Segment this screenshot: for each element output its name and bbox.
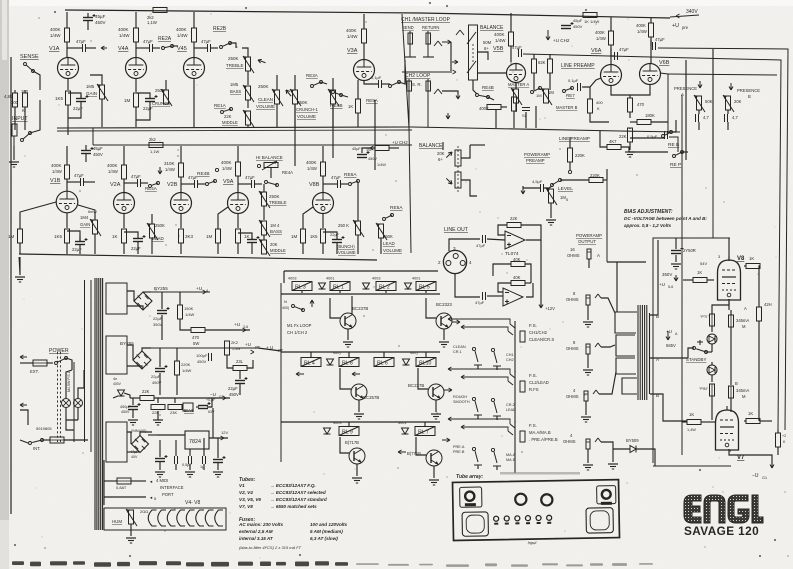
wire	[136, 102, 150, 120]
potentiometer 250K LEAD VOL	[379, 224, 384, 238]
resistor 180K	[637, 120, 651, 125]
capacitor 450uF	[128, 406, 138, 408]
fs jack fs2	[514, 371, 516, 423]
wire	[194, 47, 207, 49]
wire	[281, 421, 440, 423]
capacitor 100uF	[208, 353, 210, 361]
ground	[185, 471, 195, 473]
wire	[217, 463, 219, 470]
wire	[758, 321, 760, 421]
wire	[66, 243, 68, 254]
resistor line preamp	[548, 59, 553, 73]
wire	[130, 524, 132, 536]
output transformer primary w3	[616, 358, 636, 374]
switch fs1 a	[475, 351, 478, 362]
capacitor 47uF V5A	[337, 180, 339, 188]
bridge rectifier BY255 b	[133, 351, 151, 369]
ground	[625, 151, 635, 153]
resistor 400K plate V1A	[65, 28, 70, 42]
wire	[650, 37, 652, 63]
capacitor 47uF fb	[652, 42, 654, 50]
capacitor 47uF V6A	[614, 52, 616, 60]
poweramp inner vert	[712, 160, 714, 238]
potentiometer LEVEL 1M5	[549, 189, 554, 203]
arrow balance2b	[446, 178, 452, 184]
ground	[583, 464, 593, 466]
wire	[87, 21, 89, 30]
heater winding arc 6	[196, 510, 204, 526]
wire	[711, 326, 713, 332]
capacitor 47uF V2B	[194, 180, 196, 188]
potentiometer 250K TREBLE	[246, 57, 251, 71]
capacitor 0.1uF line	[577, 83, 579, 91]
wire	[157, 398, 159, 403]
wire	[759, 266, 760, 290]
resistor 470 5W	[191, 328, 205, 333]
wire	[348, 422, 350, 426]
row divider line	[57, 127, 680, 132]
potentiometer PRESENCE B 20K	[726, 96, 731, 110]
wire	[374, 100, 376, 170]
wire	[80, 95, 82, 98]
wire	[501, 106, 507, 108]
output transformer primary w1	[615, 312, 637, 333]
arrow loop2	[457, 94, 459, 99]
wire	[20, 440, 28, 443]
wire	[123, 243, 125, 254]
fuse int	[50, 437, 64, 443]
wire	[363, 14, 365, 18]
wire	[303, 207, 313, 229]
switch RE3A	[311, 85, 314, 88]
wire	[172, 45, 178, 47]
tube array panel	[453, 480, 620, 547]
arrow loop1	[442, 41, 451, 43]
capacitor 4.7 B	[724, 114, 726, 122]
fs sleeve fs3	[520, 431, 525, 442]
resistor 1K5 V1B	[65, 229, 70, 243]
mains dashes	[57, 352, 59, 442]
switch RE7	[531, 91, 534, 94]
wire	[193, 12, 195, 28]
wire	[193, 42, 195, 58]
wire	[90, 75, 102, 85]
wire	[569, 162, 571, 170]
wire	[131, 480, 146, 482]
wire	[132, 410, 134, 418]
potentiometer 250KB	[356, 221, 361, 235]
wire	[103, 460, 105, 505]
wire	[418, 368, 428, 389]
resistor 400K V5B	[509, 32, 514, 46]
wire right bus upper	[658, 48, 788, 430]
wire	[84, 181, 95, 183]
arrow loop2b	[447, 113, 449, 119]
wire	[585, 401, 587, 415]
wire	[151, 214, 153, 224]
switch RE P	[673, 155, 676, 158]
wire	[193, 78, 195, 127]
wire	[712, 299, 729, 314]
wire	[629, 151, 668, 153]
fs jack fs3	[514, 421, 516, 473]
switch RE6A	[349, 183, 352, 186]
ground	[583, 369, 593, 371]
switch RE5A	[383, 218, 386, 221]
arrow +12V	[540, 300, 542, 308]
wire	[587, 354, 589, 368]
wire	[357, 235, 359, 254]
switch input	[21, 139, 24, 142]
wire	[124, 182, 137, 184]
output transformer primary w2	[616, 335, 635, 356]
wire	[157, 411, 159, 420]
resistor 220K out	[589, 178, 603, 183]
wire	[211, 47, 218, 49]
wire	[159, 348, 161, 367]
resistor 1K V3B	[236, 229, 241, 243]
power transformer winding 2	[106, 336, 127, 374]
wire	[198, 183, 205, 185]
capacitor bias out	[198, 405, 208, 407]
poweramp left border	[681, 95, 683, 455]
wire	[496, 416, 498, 420]
wire	[510, 46, 512, 62]
wire	[461, 145, 470, 158]
wire	[356, 464, 358, 476]
wire	[127, 432, 131, 444]
wire	[238, 183, 251, 185]
wire	[332, 104, 334, 158]
wire	[66, 146, 68, 165]
wire	[362, 148, 375, 153]
wire	[127, 306, 143, 310]
wire	[535, 106, 537, 128]
wire	[323, 183, 337, 185]
wire	[616, 262, 618, 312]
wire	[175, 440, 177, 456]
relay RL 2	[376, 282, 396, 291]
fuse 345mA M2	[729, 386, 734, 398]
transistor BC237B a	[340, 313, 356, 329]
wire	[135, 107, 137, 127]
wire	[544, 186, 552, 188]
wire	[67, 181, 80, 183]
relay RL 6	[374, 358, 394, 367]
transistor BC171B b	[426, 450, 442, 466]
jack 8 ohms b	[586, 344, 590, 354]
wire	[104, 496, 146, 498]
fuse PTI	[710, 314, 715, 326]
arrow mains L	[20, 356, 27, 358]
wire	[238, 233, 252, 239]
capacitor 0.1uF V3A	[378, 80, 380, 88]
output transformer secondary	[649, 313, 651, 394]
ground	[9, 161, 19, 163]
arrow U36	[245, 329, 247, 331]
ground	[343, 341, 353, 343]
wire	[727, 122, 729, 130]
wire	[357, 113, 359, 127]
resistor 4k7	[607, 145, 621, 150]
arrow clean	[286, 90, 291, 96]
wire	[688, 348, 694, 358]
contact hibal	[257, 164, 260, 167]
wire	[587, 449, 589, 463]
wire	[237, 213, 239, 228]
arrow treble	[258, 60, 266, 63]
resistor 400K V1B	[65, 165, 70, 179]
wire	[701, 421, 716, 423]
wire	[189, 464, 191, 470]
ground	[581, 416, 591, 418]
wire	[66, 213, 68, 228]
ground	[439, 341, 449, 343]
wire	[758, 290, 760, 307]
wire	[242, 48, 248, 57]
wire	[263, 184, 265, 192]
contact RE4B up	[215, 168, 218, 171]
triode V1A	[58, 58, 79, 79]
wire	[79, 236, 81, 241]
wire	[113, 396, 118, 398]
wire	[730, 398, 732, 412]
wire	[66, 358, 72, 370]
switch RE1A	[221, 111, 224, 114]
zener row1 b	[363, 283, 370, 289]
fs bars fs3	[474, 464, 482, 466]
wire	[610, 45, 612, 64]
wire	[42, 439, 50, 441]
jack tip mark 2	[595, 343, 598, 347]
wire	[668, 357, 688, 359]
potentiometer 1M4 BASS 2	[262, 221, 267, 235]
wire	[683, 279, 693, 281]
wire	[443, 329, 445, 340]
wire	[239, 370, 241, 379]
wire	[137, 242, 139, 254]
wire	[67, 47, 82, 49]
triode V1B	[56, 191, 78, 213]
wire	[358, 400, 360, 412]
wire	[230, 43, 236, 48]
wire	[14, 107, 16, 130]
arrow balance1b	[452, 61, 458, 63]
wire	[124, 393, 130, 398]
wire	[217, 243, 219, 254]
wire	[159, 462, 161, 470]
wire	[399, 60, 405, 84]
resistor 1K V7	[687, 420, 701, 425]
resistor 400K grid	[588, 99, 593, 113]
wire	[711, 362, 713, 365]
wire	[629, 112, 631, 118]
wire	[135, 12, 137, 28]
potentiometer 22K MIDDLE	[246, 111, 251, 125]
arrow out V1A	[101, 47, 107, 49]
wire	[157, 434, 185, 436]
arrow row3 r	[442, 439, 450, 441]
ground	[431, 413, 441, 415]
wire	[203, 438, 205, 456]
jack hook loop1	[434, 41, 438, 46]
poweramp divider vert	[606, 169, 608, 262]
capacitor 45uF CH2b	[357, 154, 367, 156]
arrow row2 mid	[352, 373, 360, 375]
wire	[127, 291, 134, 301]
balance hook a	[456, 30, 460, 35]
potentiometer MASTER B	[544, 89, 549, 103]
wire	[601, 298, 615, 313]
wire	[590, 78, 601, 87]
power transformer winding 1	[106, 283, 127, 314]
wire	[255, 183, 262, 185]
wire	[495, 110, 497, 128]
power transformer primary wires	[73, 362, 75, 442]
wire	[20, 410, 28, 425]
wire	[237, 146, 239, 162]
arrow mains N	[20, 404, 27, 406]
return jack	[426, 33, 431, 44]
wire	[630, 84, 650, 95]
wire	[67, 105, 69, 135]
wire	[477, 365, 479, 369]
scan smudge panel top	[500, 472, 580, 475]
wire	[521, 225, 541, 240]
wire	[247, 125, 249, 127]
capacitor 4.7 A	[695, 114, 697, 122]
bias box bottom	[653, 465, 731, 467]
arrow Upre supply	[253, 351, 255, 353]
wire	[477, 72, 506, 74]
wire	[650, 357, 668, 359]
jack tip mark 1	[595, 294, 598, 298]
switch RE4A	[149, 185, 152, 188]
arrow bc237b	[444, 389, 452, 391]
wire	[77, 408, 79, 420]
wire	[179, 319, 181, 326]
wire	[698, 110, 700, 114]
wire	[14, 90, 16, 93]
wire	[777, 447, 779, 455]
wire	[281, 351, 440, 353]
wire	[142, 348, 151, 351]
fs jack fs1	[514, 321, 516, 373]
resistor 62K	[532, 59, 537, 73]
send jack	[408, 33, 413, 44]
resistor 40K b	[511, 281, 525, 286]
wire	[94, 234, 96, 254]
wire	[549, 73, 551, 90]
potentiometer MASTER A	[514, 89, 519, 103]
wire	[47, 362, 53, 364]
fuse 345mA M1	[729, 315, 734, 327]
potentiometer hibal	[264, 163, 278, 168]
wire	[237, 176, 239, 192]
wire	[730, 327, 732, 385]
switch RE9A	[389, 85, 392, 88]
heater winding arc 4	[177, 510, 185, 526]
wire	[744, 420, 746, 422]
wire	[276, 75, 278, 90]
wire	[161, 292, 163, 309]
relay RL10	[416, 358, 436, 367]
ground	[155, 471, 165, 473]
power tube V7	[716, 410, 739, 450]
resistor 1K5 V5A	[321, 229, 326, 243]
wire	[270, 167, 272, 178]
switch RE2A	[162, 47, 165, 50]
wire	[426, 298, 436, 318]
switch fs3 a	[475, 451, 478, 462]
potentiometer 250K CLEAN VOL	[275, 90, 280, 104]
switch RE2B	[220, 46, 223, 49]
potentiometer PRESENCE A 50K	[697, 96, 702, 110]
triode V4B	[184, 58, 205, 79]
resistor 1K V3A	[356, 99, 361, 113]
capacitor 22uF 350V	[157, 310, 167, 312]
transistor BC171B a	[349, 448, 365, 464]
wire	[477, 465, 479, 469]
triode V3B	[228, 193, 249, 214]
wire	[730, 310, 732, 315]
wire	[135, 78, 137, 92]
wire	[711, 344, 713, 352]
contact fs1 b	[491, 348, 494, 351]
capacitor 47uF V3B	[251, 180, 253, 188]
switch fs3 b	[494, 452, 497, 463]
resistor 1K V2A	[122, 229, 127, 243]
wire	[78, 205, 95, 220]
ground row2 left	[15, 276, 25, 278]
row divider line b	[57, 130, 412, 131]
wire	[515, 83, 517, 89]
resistor 1M V1B grid	[18, 229, 23, 243]
capacitor 22uF V2A	[133, 238, 143, 240]
bridge rectifier BY255 a	[134, 292, 152, 310]
wire	[341, 95, 348, 97]
wire	[181, 183, 194, 185]
resistor 2k2 1/4W	[153, 8, 167, 13]
wire	[66, 408, 78, 420]
switch power	[55, 362, 58, 365]
capacitor 45uF row2	[81, 150, 91, 152]
resistor 42K	[757, 307, 762, 321]
switch INT	[29, 442, 32, 445]
wire	[180, 326, 191, 330]
transistor BC2323	[436, 313, 452, 329]
potentiometer HUM	[129, 510, 134, 524]
capacitor 22uF V5A	[332, 239, 342, 241]
resistor 4.8K	[13, 93, 18, 107]
wire	[729, 449, 772, 468]
wire	[332, 104, 334, 127]
wire	[630, 137, 664, 139]
capacitor 2x50	[671, 250, 681, 252]
wire	[322, 146, 324, 162]
wire	[461, 180, 477, 196]
zener row2 b	[403, 359, 410, 365]
wire	[549, 54, 551, 59]
wire	[174, 398, 176, 403]
wire	[66, 179, 68, 191]
wire	[180, 213, 182, 228]
wire	[64, 439, 88, 441]
wire	[20, 202, 56, 229]
wire	[321, 82, 327, 84]
wire	[227, 355, 233, 368]
wire 340v stub	[670, 15, 699, 17]
